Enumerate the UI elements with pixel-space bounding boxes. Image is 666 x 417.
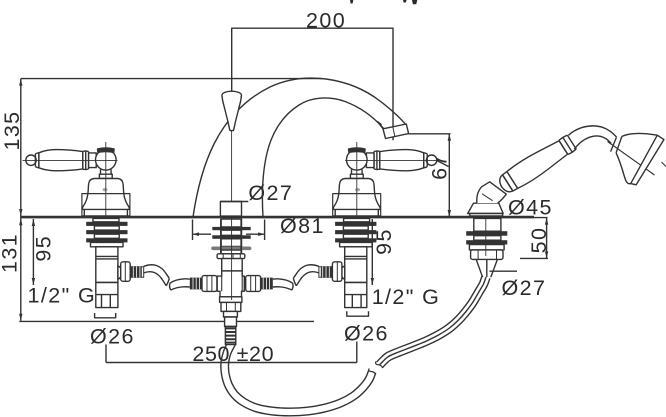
hose loop outer: [221, 345, 376, 416]
holder washer 1: [466, 231, 507, 236]
bracket under left block: [95, 313, 116, 318]
spout gray washer: [211, 247, 251, 251]
holder hex facets: [478, 250, 496, 259]
deck line: [21, 216, 535, 219]
left handle logo mark: [102, 188, 107, 191]
left underdeck flange bar 3: [86, 238, 127, 242]
hand shower grip body: [506, 138, 569, 189]
svg-text:200: 200: [306, 8, 346, 32]
shower head inner edge: [608, 142, 666, 176]
diverter knob body: [222, 97, 241, 131]
spout inner arc: [262, 98, 383, 217]
left body hex facets: [207, 276, 212, 291]
left port hex facet: [124, 262, 126, 281]
left port hex nut: [121, 262, 131, 282]
left handle bell base ring: [84, 209, 127, 215]
dim 250 extension right: [356, 342, 358, 363]
svg-text:50: 50: [527, 227, 551, 254]
left port boss: [118, 266, 122, 280]
spout spacer 1: [221, 230, 242, 235]
left valve block internal lines: [96, 295, 118, 308]
svg-text:131: 131: [0, 233, 22, 273]
dim Ø81 line: [193, 233, 265, 235]
left underdeck spacer 2: [94, 234, 119, 238]
dimension arrowheads: [19, 79, 548, 321]
shower hose from holder: [377, 276, 490, 368]
dim 250 line: [106, 362, 357, 364]
left handle mounting box: [82, 194, 130, 216]
left handle lever grip: [39, 150, 83, 171]
mixer body inner verticals: [222, 276, 243, 291]
mixer reducer: [220, 297, 242, 303]
left check valve hatch: [193, 278, 199, 289]
dim Ø81 extensions: [193, 220, 265, 241]
dim 67 extension line: [406, 133, 451, 135]
left underdeck flange bar 2: [86, 230, 127, 234]
left underdeck column: [96, 247, 118, 283]
left handle ball cap: [97, 148, 114, 153]
left underdeck locknut: [91, 242, 124, 246]
svg-text:Ø26: Ø26: [90, 325, 135, 349]
mixer hex facets: [227, 303, 236, 312]
spout underdeck column: [222, 259, 243, 271]
spout nozzle step: [378, 122, 384, 129]
left handle vertical centerline: [105, 142, 107, 216]
shower holder underdeck cylinder: [474, 218, 501, 231]
left underdeck spacer 1: [94, 226, 119, 230]
svg-text:135: 135: [0, 110, 24, 150]
left check valve: [190, 278, 202, 290]
mixer step: [224, 311, 238, 317]
bottom reference line (131): [19, 320, 314, 322]
svg-text:1/2" G: 1/2" G: [28, 284, 97, 308]
shower holder plinth: [470, 214, 503, 217]
holder hose taper: [476, 259, 497, 277]
spout spacer 2: [221, 239, 242, 247]
dim Ø27 hose leader: [490, 270, 518, 272]
left hose segment 1: [144, 265, 170, 286]
shower head ring ribs: [611, 136, 622, 152]
shower head cone: [616, 134, 657, 184]
dim 200 line: [232, 28, 393, 140]
left handle lever end cap: [35, 153, 39, 168]
dim 135/131 vertical line: [20, 79, 22, 321]
shower holder trapezoid base: [468, 203, 504, 213]
mixer ribbed connector: [225, 327, 235, 345]
spout shank top extension to label: [220, 201, 248, 203]
mixer connector ribs: [225, 328, 237, 342]
mixer hex: [221, 302, 241, 311]
left underdeck flange bar 1: [86, 222, 127, 226]
spout outer arc: [193, 78, 407, 217]
spout locknut: [217, 254, 245, 259]
holder spacer: [474, 236, 501, 241]
left port thread hatch: [133, 266, 140, 277]
left handle stem: [99, 170, 112, 179]
hand shower grip (rotated group): [496, 133, 578, 196]
right handle (mirrored): [333, 142, 440, 216]
hose loop break cap: [369, 368, 376, 374]
svg-text:Ø27: Ø27: [502, 276, 547, 300]
dim 95 right line: [371, 219, 373, 285]
spout shank sides through stack: [221, 219, 241, 254]
hand shower butt cap: [496, 175, 512, 195]
dim 95 left line: [32, 219, 34, 285]
mixer nipple: [225, 317, 237, 327]
left hose segment 2: [170, 279, 190, 290]
shower head face plate: [631, 135, 664, 185]
left handle lever end button: [26, 155, 36, 165]
left port threaded fitting: [130, 266, 141, 278]
svg-text:1/2" G: 1/2" G: [372, 285, 441, 309]
holder lower piece: [469, 245, 504, 250]
left handle lever neck rings: [83, 151, 89, 170]
dim Ø81 arrows: [193, 232, 265, 236]
left body hex nut: [202, 276, 217, 292]
svg-text:Ø27: Ø27: [248, 181, 293, 205]
left handle lever centerline: [23, 159, 118, 161]
bracket under right block: [347, 311, 369, 316]
left underdeck collar piece: [93, 218, 119, 221]
spout shank: [220, 202, 241, 217]
holder washer 2: [466, 240, 507, 244]
shower holder cup: [477, 182, 507, 203]
left handle ball: [96, 150, 117, 171]
holder hex nut: [471, 250, 503, 260]
spout nozzle aerator band: [383, 124, 409, 139]
top reference line at spout top: [21, 78, 322, 80]
left handle lever hub: [89, 153, 97, 168]
diverter knob cap: [222, 91, 242, 99]
dim 67 line: [448, 134, 450, 217]
dim 67 leader diagonal: [431, 158, 449, 167]
svg-text:250 ±20: 250 ±20: [192, 342, 274, 366]
mixer body: [217, 271, 244, 297]
spout underdeck spacer 0: [221, 219, 242, 227]
left valve block: [96, 283, 118, 308]
left port ring: [141, 267, 143, 278]
right underdeck assembly (mirrored): [246, 218, 377, 307]
left handle bell escutcheon: [82, 179, 129, 210]
dim 250 extension left: [105, 345, 107, 363]
hand shower neck: [569, 126, 617, 149]
dim 50 ticks: [520, 218, 548, 259]
spout centerline: [231, 131, 233, 300]
hand shower butt ring: [502, 172, 517, 192]
cropped text remnants top: [350, 0, 417, 4]
shower holder cup seam: [482, 194, 493, 201]
shower hose break cap upper: [376, 361, 383, 368]
spout flange bar 1: [212, 227, 250, 230]
spout locknut facets: [223, 254, 240, 259]
hand shower upper ring: [559, 135, 577, 155]
spout nozzle facet: [393, 127, 395, 137]
spout flange bar 2: [212, 235, 250, 239]
dim 50 line: [546, 218, 548, 259]
spout spacer 3: [221, 250, 242, 254]
left underdeck column step lines: [96, 256, 118, 259]
svg-text:95: 95: [32, 235, 56, 262]
holder centerline: [485, 194, 487, 256]
svg-text:Ø26: Ø26: [344, 322, 389, 346]
